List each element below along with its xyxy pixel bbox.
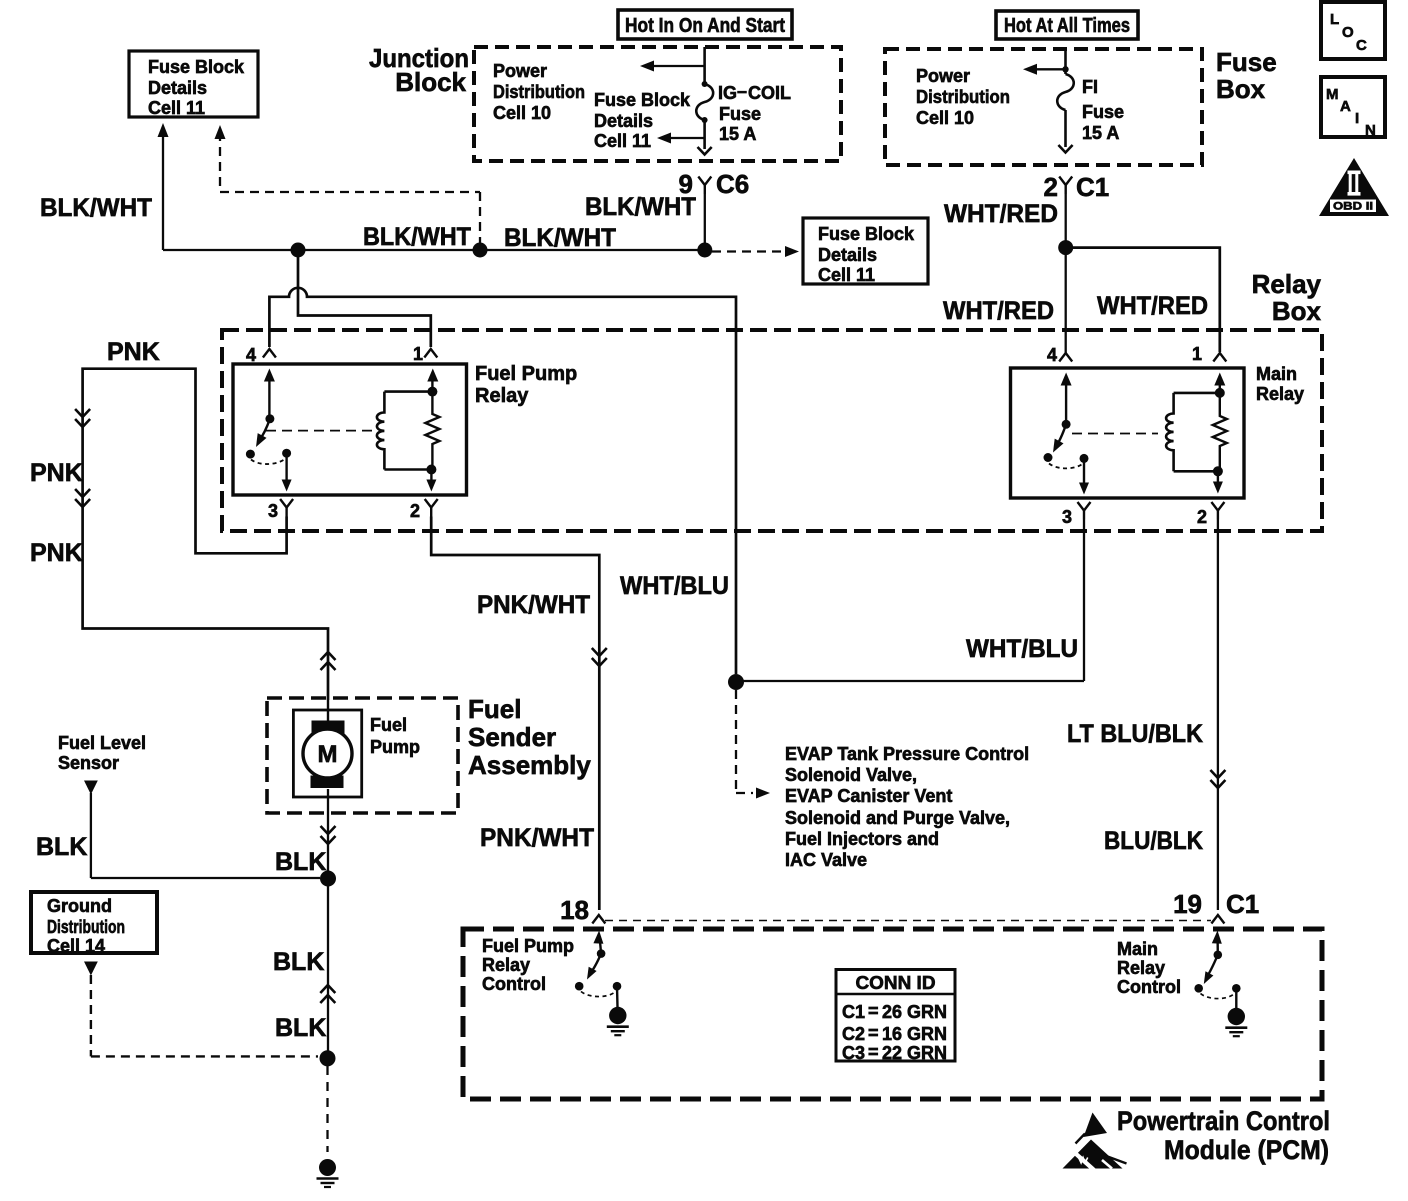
svg-text:Relay: Relay <box>482 955 530 975</box>
svg-text:Fuel: Fuel <box>370 715 407 735</box>
svg-text:16 GRN: 16 GRN <box>882 1024 947 1044</box>
svg-text:1: 1 <box>413 344 423 364</box>
svg-text:C1: C1 <box>1226 889 1259 919</box>
svg-text:Distribution: Distribution <box>47 917 125 937</box>
svg-text:Assembly: Assembly <box>468 750 591 780</box>
svg-text:Details: Details <box>818 245 877 265</box>
svg-text:26 GRN: 26 GRN <box>882 1002 947 1022</box>
svg-text:Hot In On And Start: Hot In On And Start <box>625 15 785 37</box>
svg-text:IG: IG <box>718 83 737 103</box>
svg-text:BLK/WHT: BLK/WHT <box>363 223 471 251</box>
svg-text:Relay: Relay <box>1256 384 1304 404</box>
svg-text:COIL: COIL <box>748 83 791 103</box>
svg-text:M: M <box>318 741 338 768</box>
svg-text:BLK/WHT: BLK/WHT <box>504 224 616 252</box>
svg-text:N: N <box>1365 122 1376 139</box>
svg-text:C2: C2 <box>842 1024 865 1044</box>
svg-text:Details: Details <box>594 111 653 131</box>
svg-text:Ground: Ground <box>47 896 112 916</box>
svg-text:LT BLU/BLK: LT BLU/BLK <box>1067 720 1203 748</box>
svg-text:Cell 10: Cell 10 <box>493 103 551 123</box>
svg-text:C6: C6 <box>716 169 749 199</box>
svg-text:2: 2 <box>1044 172 1058 202</box>
svg-text:C3: C3 <box>842 1043 865 1063</box>
svg-text:PNK: PNK <box>107 338 160 366</box>
svg-text:O: O <box>1342 24 1354 41</box>
svg-text:Fuel Level: Fuel Level <box>58 733 146 753</box>
svg-text:WHT/BLU: WHT/BLU <box>966 635 1078 663</box>
svg-text:Hot At All Times: Hot At All Times <box>1004 15 1130 37</box>
svg-text:EVAP Canister Vent: EVAP Canister Vent <box>785 786 952 806</box>
svg-text:Power: Power <box>493 61 547 81</box>
svg-text:CONN ID: CONN ID <box>856 973 936 993</box>
svg-text:2: 2 <box>410 501 420 521</box>
svg-text:Solenoid and Purge Valve,: Solenoid and Purge Valve, <box>785 808 1010 828</box>
svg-text:OBD II: OBD II <box>1333 201 1373 213</box>
svg-text:BLK: BLK <box>275 848 326 876</box>
svg-text:Pump: Pump <box>370 737 420 757</box>
svg-text:Sensor: Sensor <box>58 753 119 773</box>
svg-text:Relay: Relay <box>475 385 529 407</box>
svg-text:WHT/BLU: WHT/BLU <box>620 572 729 600</box>
svg-text:19: 19 <box>1173 889 1202 919</box>
svg-text:Cell 11: Cell 11 <box>594 131 651 151</box>
svg-text:Cell 10: Cell 10 <box>916 108 974 128</box>
svg-text:2: 2 <box>1197 507 1207 527</box>
svg-text:Sender: Sender <box>468 722 556 752</box>
svg-text:Details: Details <box>148 78 207 98</box>
svg-text:Relay: Relay <box>1252 269 1322 299</box>
svg-text:Cell 11: Cell 11 <box>818 265 875 285</box>
svg-text:Module (PCM): Module (PCM) <box>1164 1135 1329 1165</box>
svg-text:Control: Control <box>1117 977 1181 997</box>
svg-text:15 A: 15 A <box>719 124 756 144</box>
svg-text:Relay: Relay <box>1117 958 1165 978</box>
svg-text:BLK: BLK <box>273 948 324 976</box>
svg-text:Block: Block <box>395 67 466 97</box>
svg-text:Main: Main <box>1256 364 1297 384</box>
svg-text:15 A: 15 A <box>1082 123 1119 143</box>
svg-text:1: 1 <box>1192 344 1202 364</box>
svg-text:WHT/RED: WHT/RED <box>943 297 1054 325</box>
svg-text:C1: C1 <box>1076 172 1109 202</box>
svg-text:BLK/WHT: BLK/WHT <box>40 194 152 222</box>
svg-text:Main: Main <box>1117 939 1158 959</box>
svg-text:PNK: PNK <box>30 459 83 487</box>
svg-text:Fuse: Fuse <box>1216 47 1277 77</box>
svg-text:M: M <box>1326 86 1339 103</box>
svg-text:22 GRN: 22 GRN <box>882 1043 947 1063</box>
svg-text:Fuse Block: Fuse Block <box>148 57 245 77</box>
svg-text:FI: FI <box>1082 77 1098 97</box>
svg-text:Solenoid Valve,: Solenoid Valve, <box>785 765 917 785</box>
svg-text:Fuse Block: Fuse Block <box>594 90 691 110</box>
svg-text:BLU/BLK: BLU/BLK <box>1104 827 1203 855</box>
svg-text:4: 4 <box>246 345 256 365</box>
svg-text:BLK/WHT: BLK/WHT <box>585 193 696 221</box>
svg-text:4: 4 <box>1047 345 1057 365</box>
svg-text:PNK: PNK <box>30 539 83 567</box>
svg-text:I: I <box>1355 110 1359 127</box>
svg-text:C1: C1 <box>842 1002 865 1022</box>
svg-text:Fuel Pump: Fuel Pump <box>482 936 574 956</box>
svg-text:Box: Box <box>1216 74 1266 104</box>
svg-text:Fuse Block: Fuse Block <box>818 224 915 244</box>
svg-text:Distribution: Distribution <box>916 87 1010 107</box>
svg-text:Cell 14: Cell 14 <box>47 936 105 956</box>
svg-text:Distribution: Distribution <box>493 82 585 102</box>
svg-text:=: = <box>868 1001 879 1021</box>
svg-text:C: C <box>1356 37 1367 54</box>
svg-text:=: = <box>868 1023 879 1043</box>
svg-text:BLK: BLK <box>36 833 87 861</box>
svg-text:18: 18 <box>560 895 589 925</box>
svg-text:Fuel: Fuel <box>468 694 521 724</box>
svg-text:IAC Valve: IAC Valve <box>785 850 867 870</box>
svg-text:Cell 11: Cell 11 <box>148 98 205 118</box>
svg-text:Fuse: Fuse <box>719 104 761 124</box>
svg-text:3: 3 <box>1062 507 1072 527</box>
svg-text:Power: Power <box>916 66 970 86</box>
svg-text:PNK/WHT: PNK/WHT <box>477 591 590 619</box>
svg-text:WHT/RED: WHT/RED <box>944 200 1058 228</box>
svg-text:Fuel Pump: Fuel Pump <box>475 363 577 385</box>
svg-text:=: = <box>868 1042 879 1062</box>
svg-text:Box: Box <box>1272 296 1322 326</box>
svg-text:PNK/WHT: PNK/WHT <box>480 824 594 852</box>
svg-text:Fuel Injectors and: Fuel Injectors and <box>785 829 939 849</box>
svg-text:–: – <box>737 81 747 101</box>
svg-text:Control: Control <box>482 974 546 994</box>
svg-text:Powertrain Control: Powertrain Control <box>1117 1106 1330 1136</box>
svg-text:WHT/RED: WHT/RED <box>1097 292 1208 320</box>
svg-text:L: L <box>1330 11 1339 28</box>
svg-text:Fuse: Fuse <box>1082 102 1124 122</box>
svg-text:BLK: BLK <box>275 1014 326 1042</box>
svg-text:A: A <box>1340 98 1351 115</box>
svg-text:3: 3 <box>268 501 278 521</box>
svg-text:EVAP Tank Pressure Control: EVAP Tank Pressure Control <box>785 744 1029 764</box>
